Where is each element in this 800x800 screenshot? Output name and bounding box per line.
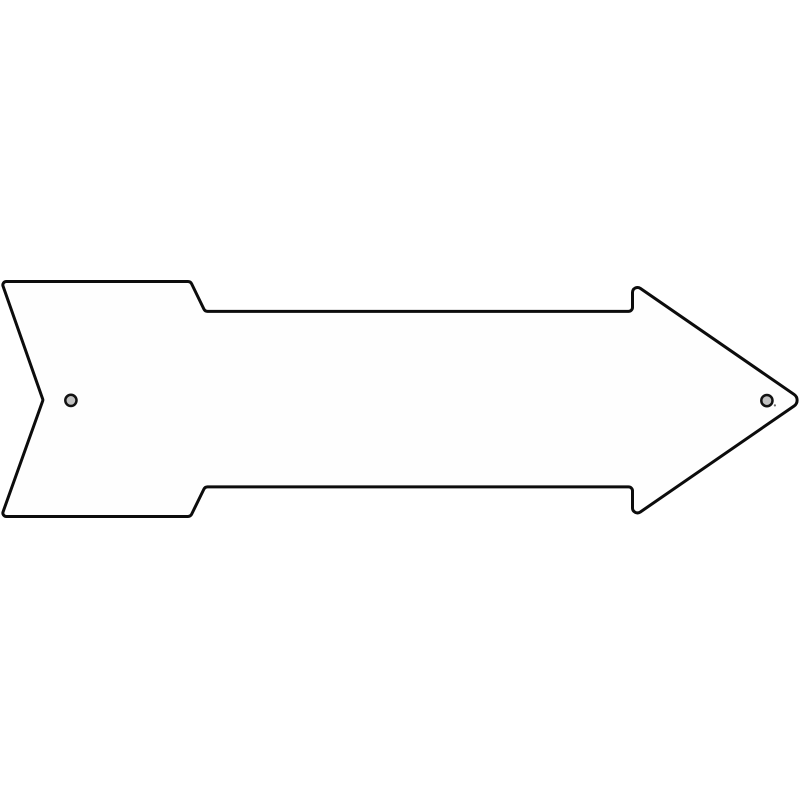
left mounting hole bbox=[65, 395, 76, 406]
right mounting hole bbox=[761, 395, 772, 406]
arrow sign blank outline bbox=[3, 282, 797, 517]
small speck near right hole bbox=[774, 404, 776, 406]
